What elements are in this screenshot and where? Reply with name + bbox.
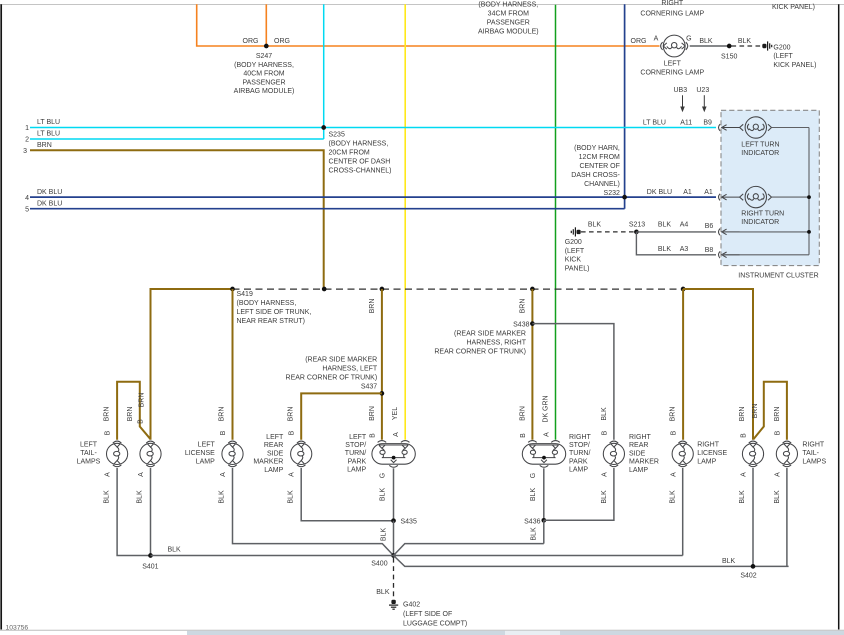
svg-text:S150: S150 bbox=[721, 54, 737, 61]
instrument cluster box bbox=[721, 110, 819, 265]
junction dot bus at right license feed bbox=[681, 287, 686, 292]
svg-text:B8: B8 bbox=[705, 247, 714, 254]
svg-text:103756: 103756 bbox=[6, 624, 29, 631]
wire BLK right tail bulb2 to S402 corner bbox=[786, 468, 788, 566]
svg-text:BLK: BLK bbox=[531, 527, 538, 541]
svg-text:BLK: BLK bbox=[168, 546, 182, 553]
svg-text:B: B bbox=[369, 433, 376, 438]
svg-text:4: 4 bbox=[25, 195, 29, 202]
svg-text:B: B bbox=[740, 433, 747, 438]
svg-text:ORG: ORG bbox=[631, 38, 647, 45]
svg-text:S213: S213 bbox=[629, 221, 645, 228]
ground G402 bbox=[389, 600, 398, 609]
svg-text:(BODY HARNESS,34CM FROMPASSENG: (BODY HARNESS,34CM FROMPASSENGERAIRBAG M… bbox=[478, 1, 539, 35]
svg-text:G: G bbox=[530, 473, 537, 478]
wire BLK right side marker to S436 bbox=[544, 468, 614, 520]
svg-text:BRN: BRN bbox=[369, 299, 376, 314]
wire inside cluster B8 row bbox=[722, 254, 809, 256]
wire BLK S213 down and right to cluster B8 bbox=[636, 232, 716, 255]
svg-text:INSTRUMENT CLUSTER: INSTRUMENT CLUSTER bbox=[738, 273, 818, 280]
lamp RIGHT TURN INDICATOR bbox=[740, 186, 772, 207]
lamp LEFT LICENSE LAMP bbox=[222, 441, 243, 467]
junction dot bus at BRN from S235 bbox=[322, 287, 327, 292]
svg-text:RIGHT TURNINDICATOR: RIGHT TURNINDICATOR bbox=[741, 210, 784, 226]
svg-text:BRN: BRN bbox=[219, 407, 226, 422]
svg-text:BRN: BRN bbox=[287, 407, 294, 422]
lamp LEFT CORNERING LAMP bbox=[661, 35, 688, 57]
svg-text:LEFT TURNINDICATOR: LEFT TURNINDICATOR bbox=[741, 141, 779, 157]
svg-text:5: 5 bbox=[25, 206, 29, 213]
svg-text:BLK: BLK bbox=[381, 528, 388, 542]
wire BLK left tail bulb1 to S401 bbox=[117, 468, 150, 556]
svg-text:S435: S435 bbox=[401, 519, 417, 526]
wire BRN S437 to left side marker lamp bbox=[301, 393, 382, 439]
wire BLK S436 run to S400 bbox=[394, 544, 544, 556]
wire BLK dashed S400 to G402 bbox=[393, 558, 395, 598]
svg-text:LEFTSTOP/TURN/PARKLAMP: LEFTSTOP/TURN/PARKLAMP bbox=[345, 434, 367, 474]
svg-text:BLK: BLK bbox=[774, 490, 781, 504]
svg-text:A: A bbox=[654, 35, 659, 42]
wire 3 BRN to corner then down to trunk bus bbox=[30, 150, 324, 289]
svg-text:A: A bbox=[741, 472, 748, 477]
wire BLK left stop G to S435 bbox=[393, 468, 395, 520]
svg-text:B: B bbox=[105, 430, 112, 435]
svg-text:BRN: BRN bbox=[37, 142, 52, 149]
wire BLK left license to S400 upper bbox=[233, 468, 394, 556]
lamp right tail bulb 1 bbox=[742, 441, 763, 467]
splice S438 bbox=[530, 321, 535, 326]
svg-text:BRN: BRN bbox=[670, 407, 677, 422]
svg-text:BLK: BLK bbox=[670, 490, 677, 504]
svg-text:YEL: YEL bbox=[392, 407, 399, 420]
wire BLK bus S401 through S400 to right license corner bbox=[151, 555, 683, 557]
splice S401 bbox=[148, 553, 153, 558]
wire LT BLU vertical from top to S235 bbox=[323, 4, 325, 127]
splice S235 bbox=[321, 125, 326, 130]
svg-text:A: A bbox=[774, 472, 781, 477]
splice S213 bbox=[634, 230, 639, 235]
junction dot B6 to bus bbox=[807, 230, 811, 234]
wire DK BLU vertical from top to wire 5 bbox=[624, 4, 626, 208]
wire 4 DK BLU to instrument cluster bbox=[30, 196, 716, 198]
splice S419 bbox=[230, 287, 235, 292]
splice S435 bbox=[391, 518, 396, 523]
svg-text:BLK: BLK bbox=[738, 38, 752, 45]
connector entry B8 bbox=[719, 251, 740, 258]
svg-text:ORG: ORG bbox=[243, 38, 259, 45]
svg-text:BLK: BLK bbox=[588, 221, 602, 228]
svg-text:S438: S438 bbox=[513, 322, 529, 329]
svg-text:A: A bbox=[670, 472, 677, 477]
svg-text:A4: A4 bbox=[680, 221, 689, 228]
bottom scrollbar lighter segment bbox=[505, 631, 560, 635]
svg-text:BLK: BLK bbox=[739, 490, 746, 504]
junction dot bus at left stop feed bbox=[380, 287, 385, 292]
svg-text:BRN: BRN bbox=[369, 406, 376, 421]
wire BLK dashed S150 to G200 bbox=[732, 45, 762, 47]
svg-text:BRN: BRN bbox=[127, 407, 134, 422]
wire BRN right tail loop bbox=[753, 382, 787, 440]
svg-text:A1: A1 bbox=[704, 189, 713, 196]
wire 2 LT BLU to S235 bbox=[30, 138, 324, 140]
svg-text:BLK: BLK bbox=[658, 246, 672, 253]
svg-text:A: A bbox=[393, 432, 400, 437]
arrow UB3 down bbox=[682, 95, 684, 110]
lamp RIGHT LICENSE LAMP bbox=[672, 441, 693, 467]
wire DK GRN vertical from top to right stop lamp A bbox=[555, 5, 557, 440]
svg-text:UB3: UB3 bbox=[673, 87, 687, 94]
svg-text:B: B bbox=[774, 430, 781, 435]
svg-text:S402: S402 bbox=[740, 573, 756, 580]
splice S247 bbox=[264, 44, 269, 49]
svg-text:LT BLU: LT BLU bbox=[37, 119, 60, 126]
svg-text:BLK: BLK bbox=[103, 490, 110, 504]
lamp RIGHT STOP/TURN/PARK LAMP bbox=[522, 441, 565, 468]
svg-text:B: B bbox=[137, 419, 144, 424]
top border line bbox=[0, 4, 844, 6]
svg-text:U23: U23 bbox=[696, 87, 709, 94]
svg-text:KICK PANEL): KICK PANEL) bbox=[772, 4, 815, 11]
ground G200 top bbox=[762, 41, 771, 50]
splice S402 bbox=[751, 564, 756, 569]
svg-text:A11: A11 bbox=[680, 119, 692, 126]
svg-text:LT BLU: LT BLU bbox=[643, 119, 666, 126]
svg-text:BLK: BLK bbox=[137, 490, 144, 504]
svg-text:B6: B6 bbox=[705, 223, 714, 230]
wire BLK S436 down to run bbox=[543, 520, 545, 543]
wire BRN bus right branch to right tail lamps bbox=[683, 289, 753, 440]
lamp LEFT STOP/TURN/PARK LAMP bbox=[372, 441, 415, 468]
svg-text:A3: A3 bbox=[680, 246, 689, 253]
svg-text:BLK: BLK bbox=[219, 490, 226, 504]
svg-text:BRN: BRN bbox=[774, 407, 781, 422]
svg-text:BRN: BRN bbox=[519, 406, 526, 421]
cluster internal right bus vertical bbox=[808, 128, 810, 255]
trunk bus dashed line bbox=[233, 288, 684, 290]
wire 1 LT BLU to instrument cluster bbox=[30, 127, 716, 129]
wire BRN bus down to S438 and right stop lamp B bbox=[531, 289, 533, 440]
arrow U23 down bbox=[703, 95, 705, 110]
wire BLK S438 to right side marker lamp bbox=[532, 324, 614, 440]
wire BLK right license down to S400 bus bbox=[682, 468, 684, 556]
lamp LEFT REAR SIDE MARKER LAMP bbox=[291, 441, 312, 467]
ground G200 lower bbox=[571, 227, 580, 236]
svg-text:A: A bbox=[220, 472, 227, 477]
svg-text:BLK: BLK bbox=[601, 490, 608, 504]
wire inside cluster from left turn to right bus bbox=[772, 127, 810, 129]
splice S437 bbox=[380, 391, 385, 396]
svg-text:3: 3 bbox=[23, 148, 27, 155]
wire 5 DK BLU to S232 vertical bbox=[30, 208, 625, 210]
left border line bbox=[0, 4, 2, 629]
svg-text:LT BLU: LT BLU bbox=[37, 131, 60, 138]
splice S400 bbox=[391, 553, 396, 558]
svg-text:S400: S400 bbox=[371, 560, 387, 567]
svg-text:A: A bbox=[601, 472, 608, 477]
svg-text:B: B bbox=[670, 430, 677, 435]
wire 2 stub to S235 bbox=[323, 128, 325, 140]
bottom scrollbar track bbox=[187, 631, 844, 635]
svg-text:B9: B9 bbox=[703, 119, 712, 126]
svg-text:B: B bbox=[601, 430, 608, 435]
svg-text:B: B bbox=[520, 433, 527, 438]
wire BLK right tail bulb1 to S402 bbox=[752, 468, 754, 566]
lamp RIGHT REAR SIDE MARKER LAMP bbox=[603, 441, 624, 467]
svg-text:ORG: ORG bbox=[274, 38, 290, 45]
svg-text:G: G bbox=[686, 35, 691, 42]
wire BRN S419 down to left license lamp bbox=[232, 289, 234, 440]
right border line bbox=[838, 4, 840, 629]
connector entry A1 bbox=[719, 194, 740, 201]
svg-text:BLK: BLK bbox=[601, 407, 608, 421]
wire BRN bus down to S437 and left stop lamp B bbox=[381, 289, 383, 440]
wire BLK S213 to cluster B6 bbox=[636, 231, 716, 233]
splice S232 bbox=[622, 195, 627, 200]
bottom border line bbox=[0, 629, 844, 631]
wire YEL vertical from top to left stop lamp A bbox=[404, 4, 406, 440]
svg-text:BLK: BLK bbox=[376, 589, 390, 596]
svg-text:S401: S401 bbox=[142, 564, 158, 571]
wire ORG vertical from top to corner bbox=[197, 4, 660, 46]
svg-text:BRN: BRN bbox=[519, 299, 526, 314]
svg-text:BLK: BLK bbox=[658, 221, 672, 228]
svg-text:DK BLU: DK BLU bbox=[37, 189, 62, 196]
svg-text:A: A bbox=[138, 472, 145, 477]
wire inside cluster from right turn to right bus bbox=[772, 196, 810, 198]
wire inside cluster B6 row bbox=[722, 231, 809, 233]
svg-text:A: A bbox=[543, 432, 550, 437]
wire BRN bus down to right license lamp bbox=[682, 289, 684, 440]
wire BLK right stop G to S436 bbox=[543, 468, 545, 520]
svg-text:2: 2 bbox=[25, 137, 29, 144]
junction dot bus at right stop feed bbox=[530, 287, 535, 292]
wire BLK S400 diagonal to S402 run bbox=[394, 556, 789, 567]
junction dot right turn to bus bbox=[807, 195, 811, 199]
svg-text:DK BLU: DK BLU bbox=[647, 189, 672, 196]
svg-text:BRN: BRN bbox=[138, 393, 145, 408]
svg-text:A: A bbox=[105, 472, 112, 477]
svg-text:B: B bbox=[220, 430, 227, 435]
svg-text:B: B bbox=[289, 430, 296, 435]
lamp left tail bulb 1 bbox=[107, 441, 128, 467]
svg-text:BRN: BRN bbox=[739, 407, 746, 422]
svg-text:DK BLU: DK BLU bbox=[37, 200, 62, 207]
svg-text:A1: A1 bbox=[683, 189, 692, 196]
splice S436 bbox=[541, 518, 546, 523]
wire BLK dashed G200 to S213 bbox=[581, 231, 636, 233]
wire BLK from cornering lamp to S150 bbox=[690, 45, 730, 47]
connector entry B6 bbox=[719, 229, 740, 236]
svg-text:BLK: BLK bbox=[287, 490, 294, 504]
splice S150 bbox=[727, 44, 732, 49]
svg-text:BLK: BLK bbox=[699, 38, 713, 45]
svg-text:1: 1 bbox=[25, 125, 29, 132]
lamp LEFT TURN INDICATOR bbox=[740, 117, 772, 138]
lamp left tail bulb 2 bbox=[140, 441, 161, 467]
wire BLK left side marker to S435 bbox=[301, 468, 393, 521]
svg-text:BLK: BLK bbox=[380, 488, 387, 502]
svg-text:A: A bbox=[289, 472, 296, 477]
connector entry A11/B9 bbox=[719, 124, 740, 131]
wire BLK left tail bulb2 to S401 bbox=[150, 468, 152, 556]
wire BLK S435 to S400 bbox=[393, 521, 395, 556]
svg-text:BLK: BLK bbox=[722, 558, 736, 565]
wire BRN bus left branch to left tail lamps bbox=[151, 289, 233, 440]
lamp right tail bulb 2 bbox=[776, 441, 797, 467]
svg-text:BRN: BRN bbox=[103, 407, 110, 422]
svg-text:S436: S436 bbox=[524, 518, 540, 525]
wire BRN left tail loop bbox=[117, 382, 150, 440]
wire ORG vertical drop to S247 bbox=[265, 4, 267, 46]
svg-text:BLK: BLK bbox=[530, 488, 537, 502]
svg-text:BRN: BRN bbox=[752, 404, 759, 419]
svg-text:DK GRN: DK GRN bbox=[543, 395, 550, 422]
svg-text:G: G bbox=[380, 473, 387, 478]
